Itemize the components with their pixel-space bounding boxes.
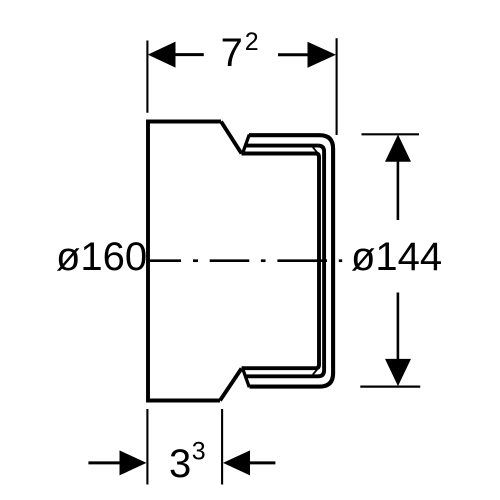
top chamfer — [221, 122, 242, 154]
right dim line lower — [397, 293, 400, 360]
svg-text:ø160: ø160 — [56, 235, 147, 279]
top dim extension line right — [336, 38, 338, 135]
notch diagonal bottom — [313, 369, 317, 374]
top dim extension line left — [146, 41, 148, 113]
body outline — [148, 122, 221, 401]
svg-text:7: 7 — [221, 31, 243, 75]
bottom dim right arrow — [223, 450, 250, 475]
right dim bottom tick — [360, 386, 420, 388]
lip left end diagonal top — [243, 135, 250, 154]
top dim right arrow — [308, 42, 337, 68]
bottom dim extension line left — [146, 409, 148, 485]
bottom dim left arrow — [120, 450, 147, 475]
inner surface line3 + v3 — [242, 154, 320, 369]
svg-text:2: 2 — [245, 28, 259, 56]
svg-text:3: 3 — [169, 442, 191, 486]
top dim left arrow — [148, 42, 176, 68]
outer wall line1 + v1 — [249, 135, 333, 386]
notch diagonal top — [313, 147, 317, 152]
right dim down arrow — [385, 359, 411, 386]
centerline dash-dot — [150, 259, 342, 262]
lip left end diagonal bottom — [243, 369, 250, 388]
right dim top tick — [362, 133, 420, 135]
bottom dim extension line right — [221, 409, 223, 485]
bottom chamfer — [220, 369, 242, 401]
right dim up arrow — [385, 135, 411, 162]
right dim line upper — [397, 161, 400, 220]
inner wall line2 + v2 — [246, 146, 325, 377]
svg-text:ø144: ø144 — [351, 235, 442, 279]
svg-text:3: 3 — [192, 437, 206, 465]
